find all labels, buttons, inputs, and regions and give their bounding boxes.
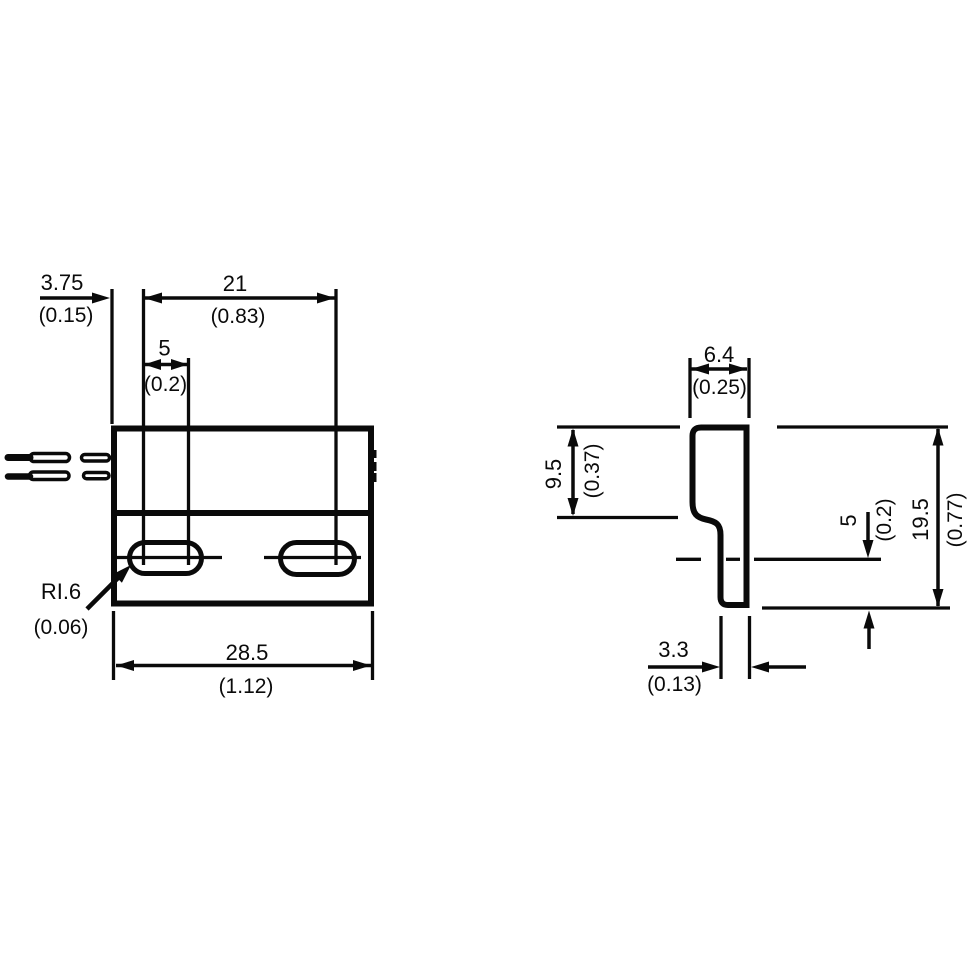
dim 21 line (144, 296, 335, 300)
dim 3.3 right line (766, 665, 806, 669)
divider line (111, 510, 374, 516)
ext 6.4 left (688, 358, 691, 418)
ext line 21 left (142, 289, 145, 565)
dim 19.5 line (936, 429, 940, 606)
dim 9.5 line (571, 430, 575, 514)
ext 3.3 right (748, 616, 751, 679)
pin lower inner (84, 473, 110, 479)
ext 9.5 bottom (557, 516, 678, 519)
side profile (693, 428, 747, 606)
pin lower stub (8, 473, 30, 480)
svg-text:5: 5 (158, 336, 170, 361)
dim 3.3 left line (648, 665, 704, 669)
svg-text:19.5: 19.5 (908, 498, 933, 541)
dim 19.5 arrow top (933, 428, 944, 446)
dim 21 arrow right (317, 293, 335, 304)
slot hole right (281, 543, 355, 575)
dim 3.75 arrow (92, 293, 110, 304)
dim 6.4 arrow right (729, 364, 747, 375)
dim 6.4 arrow left (691, 364, 709, 375)
up arrow head (864, 611, 875, 629)
svg-text:(0.15): (0.15) (39, 304, 94, 327)
dim 3.75 line (40, 296, 96, 300)
svg-text:6.4: 6.4 (704, 342, 735, 367)
dim 21 arrow left (144, 293, 162, 304)
svg-text:(0.77): (0.77) (944, 493, 967, 548)
dim 3.3 left arrow (702, 662, 720, 673)
dashed centerline side (676, 558, 701, 561)
ext top right segment (777, 425, 948, 428)
dim 5 side line (866, 512, 870, 545)
dim 9.5 arrow top (568, 429, 579, 447)
svg-text:5: 5 (836, 514, 861, 526)
ext line 28.5 right (371, 611, 374, 680)
svg-text:(1.12): (1.12) (219, 675, 274, 698)
svg-text:(0.2): (0.2) (144, 373, 187, 396)
ext bottom right segment (762, 606, 950, 609)
ext line 21 right (334, 289, 337, 565)
svg-text:28.5: 28.5 (226, 640, 269, 665)
svg-text:(0.2): (0.2) (873, 498, 896, 541)
svg-text:3.75: 3.75 (41, 270, 84, 295)
dim 5 arrow left (144, 359, 161, 370)
svg-text:(0.13): (0.13) (647, 673, 702, 696)
svg-text:21: 21 (223, 271, 247, 296)
svg-text:3.3: 3.3 (658, 637, 689, 662)
dim 28.5 line (116, 664, 371, 668)
dim 28.5 arrow left (116, 660, 134, 671)
pin lower crimp (30, 472, 70, 480)
dim 28.5 arrow right (353, 660, 371, 671)
leader R1.6 arrowhead (113, 565, 131, 583)
pin upper crimp (30, 454, 70, 462)
right edge nub 2 (374, 462, 377, 471)
svg-text:(0.06): (0.06) (34, 616, 89, 639)
dim 9.5 arrow bottom (568, 498, 579, 516)
ext 6.4 right (747, 358, 750, 418)
ext 3.3 left (719, 616, 722, 679)
leader R1.6 (87, 576, 120, 609)
up arrow below bottom line (867, 622, 871, 649)
svg-text:9.5: 9.5 (541, 459, 566, 490)
svg-text:(0.37): (0.37) (581, 444, 604, 499)
pin upper stub (8, 454, 30, 461)
body outline front view (114, 429, 371, 604)
dim 19.5 arrow bottom (933, 589, 944, 607)
dim 5 line (144, 363, 188, 367)
centerline slot left (112, 556, 222, 559)
right edge nub 1 (374, 450, 377, 458)
centerline slot right (264, 556, 361, 559)
dim 3.3 right arrow (751, 662, 769, 673)
ext line 5 right (187, 358, 190, 565)
ext line 28.5 left (112, 611, 115, 680)
dim 6.4 line (691, 367, 747, 371)
pin upper inner (82, 455, 110, 462)
ext line left 3.75 (110, 289, 113, 424)
dim 5 side arrow (863, 540, 874, 558)
dim 5 arrow right (171, 359, 188, 370)
svg-text:RI.6: RI.6 (41, 579, 81, 604)
ext top left segment (557, 425, 680, 428)
svg-text:(0.25): (0.25) (692, 376, 747, 399)
slot hole left (130, 543, 202, 574)
right edge nub 3 (374, 473, 377, 482)
svg-text:(0.83): (0.83) (211, 305, 266, 328)
